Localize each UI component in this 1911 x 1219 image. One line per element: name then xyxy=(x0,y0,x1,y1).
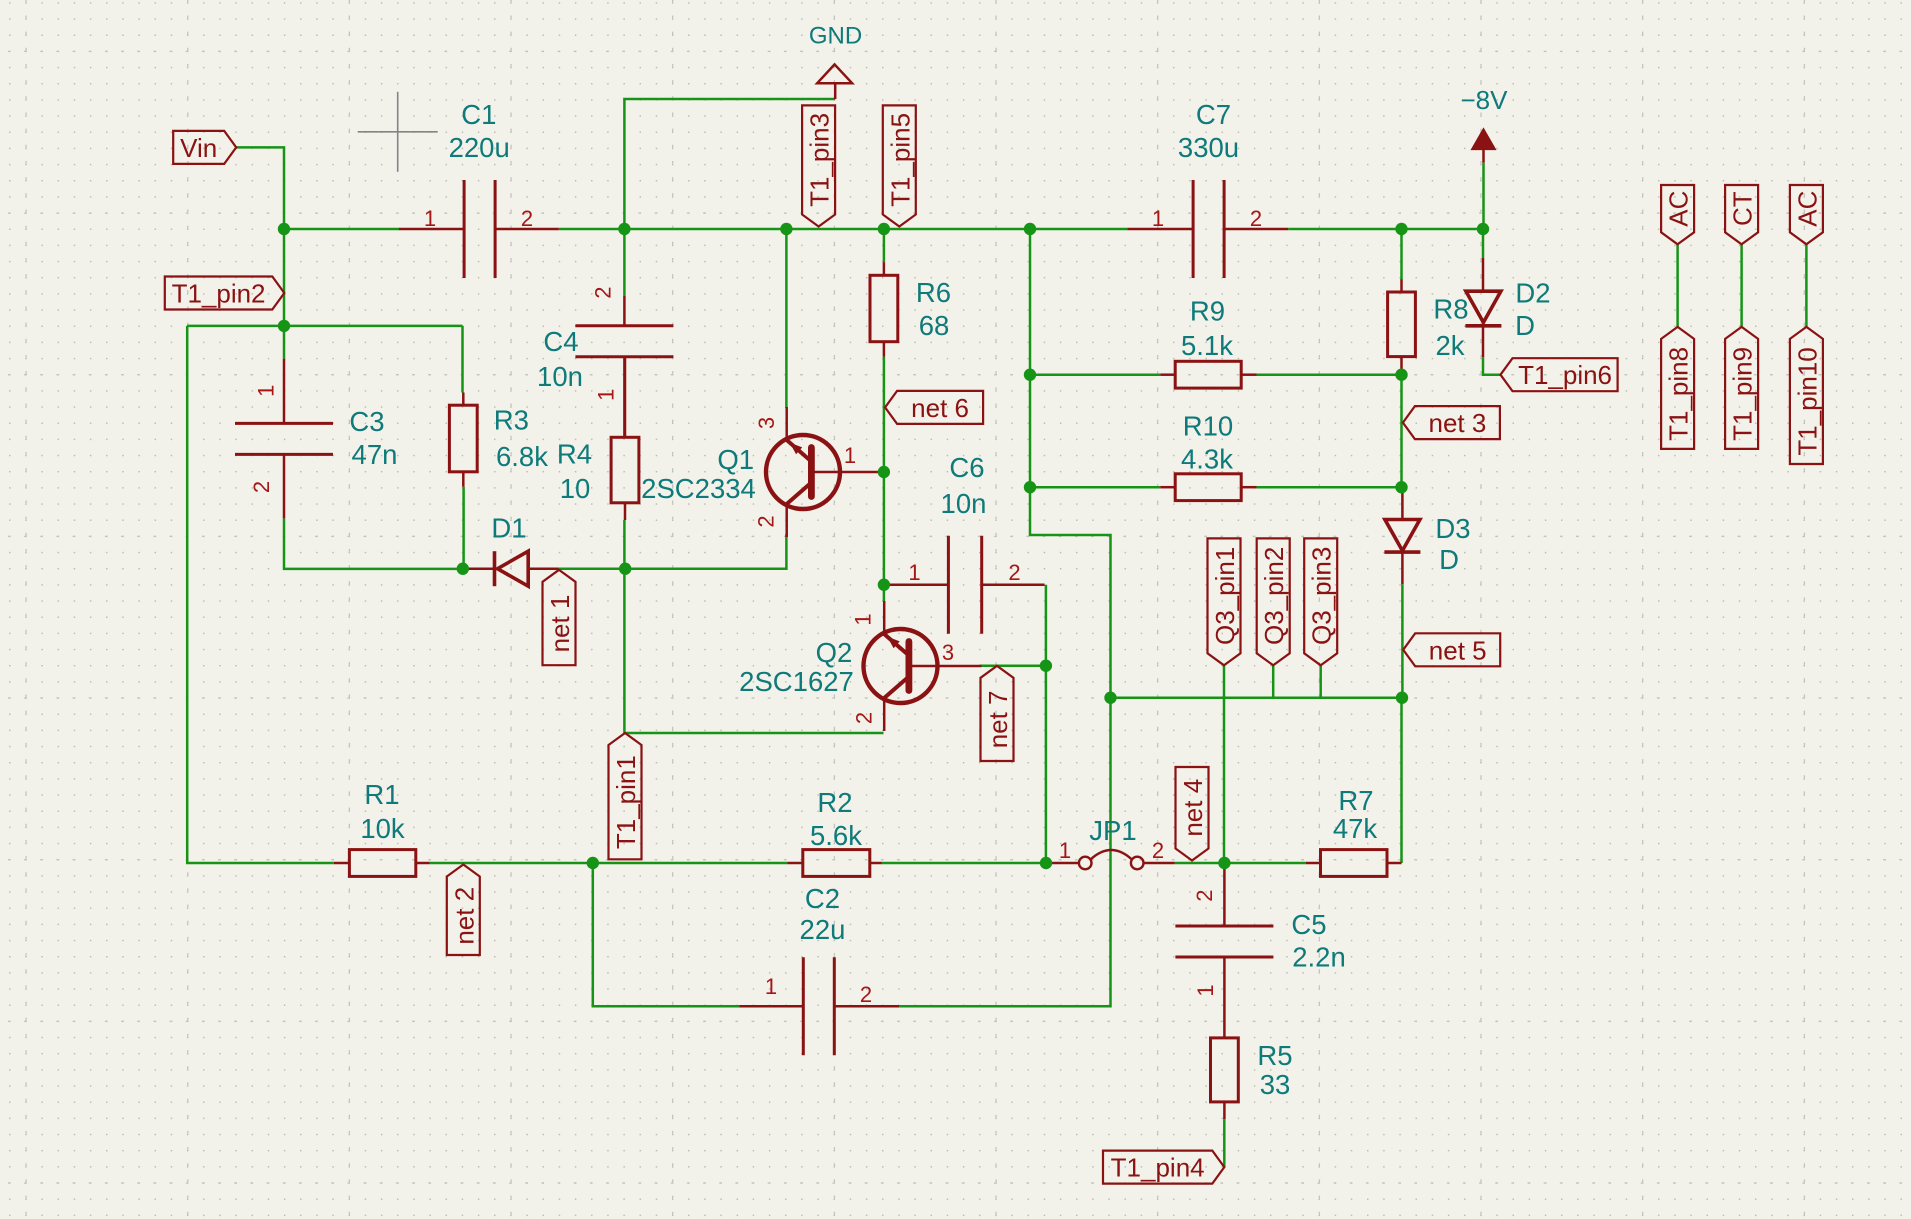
svg-text:D: D xyxy=(1439,544,1459,575)
hierarchical label T1_pin2 xyxy=(165,277,284,310)
capacitor C5 xyxy=(1175,866,1345,1038)
svg-text:T1_pin1: T1_pin1 xyxy=(611,755,641,849)
junction Q2 collector node xyxy=(1040,660,1052,672)
hierarchical label AC xyxy=(1661,185,1694,244)
svg-text:R5: R5 xyxy=(1257,1040,1292,1071)
svg-text:2: 2 xyxy=(249,481,274,493)
wire AC to T1_pin10 xyxy=(1805,244,1808,327)
junction row A / R6 column xyxy=(878,223,890,235)
junction R1 right node xyxy=(587,857,599,869)
svg-text:Q3_pin1: Q3_pin1 xyxy=(1210,547,1240,645)
hierarchical label T1_pin10 xyxy=(1790,327,1823,464)
svg-text:T1_pin9: T1_pin9 xyxy=(1728,347,1758,441)
capacitor C4 xyxy=(537,286,673,437)
capacitor C3 xyxy=(235,359,397,519)
svg-text:T1_pin5: T1_pin5 xyxy=(885,113,915,207)
power symbol GND xyxy=(809,23,862,100)
wire row A to Q1 collector xyxy=(785,229,788,408)
svg-text:1: 1 xyxy=(844,443,856,468)
wire node down to JP1 row xyxy=(1045,666,1048,863)
hierarchical label net 2 xyxy=(447,865,480,956)
wire D1 anode to node xyxy=(559,567,626,570)
hierarchical label net 3 xyxy=(1403,406,1500,439)
hierarchical label net 5 xyxy=(1403,633,1500,666)
svg-text:C6: C6 xyxy=(949,452,984,483)
wire JP1 to R7 xyxy=(1175,862,1306,865)
svg-text:33: 33 xyxy=(1260,1069,1291,1100)
hierarchical label Q3_pin1 xyxy=(1208,538,1241,665)
wire row A middle segment xyxy=(559,228,1128,231)
capacitor C1 xyxy=(399,99,559,278)
junction net 3 node xyxy=(1395,369,1407,381)
wire R2 to JP1 xyxy=(882,862,1046,865)
junction JP1 left node xyxy=(1040,857,1052,869)
svg-text:47k: 47k xyxy=(1333,813,1378,844)
svg-text:R3: R3 xyxy=(494,404,529,435)
svg-text:D2: D2 xyxy=(1515,278,1550,309)
wire Vin to C3 column xyxy=(236,147,284,358)
wire row A right segment xyxy=(1288,228,1483,231)
wire net row xyxy=(1111,696,1403,699)
wire down to R3 xyxy=(461,326,464,393)
svg-text:Q3_pin3: Q3_pin3 xyxy=(1307,547,1337,645)
junction C5 node xyxy=(1218,857,1230,869)
svg-text:330u: 330u xyxy=(1178,132,1239,163)
svg-text:T1_pin3: T1_pin3 xyxy=(805,113,835,207)
svg-text:Q2: Q2 xyxy=(816,637,853,668)
svg-text:1: 1 xyxy=(594,389,619,401)
wire Q3_pin2 down xyxy=(1272,665,1275,697)
resistor R4 xyxy=(557,357,639,520)
svg-text:T1_pin8: T1_pin8 xyxy=(1664,347,1694,441)
svg-text:2: 2 xyxy=(1192,889,1217,901)
svg-text:2k: 2k xyxy=(1435,330,1464,361)
resistor R10 xyxy=(1160,411,1256,501)
junction net 5 node xyxy=(1396,692,1408,704)
wire C3 pin2 to D1 row xyxy=(284,518,463,569)
junction row A / Vin column xyxy=(278,223,290,235)
wire to R10 pin1 xyxy=(1030,486,1160,489)
svg-text:JP1: JP1 xyxy=(1089,815,1136,846)
junction row A / R8 column xyxy=(1395,223,1407,235)
svg-text:D3: D3 xyxy=(1435,513,1470,544)
wire row A to R6 xyxy=(883,229,886,262)
junction row A / GND-C4 column xyxy=(618,223,630,235)
svg-text:C4: C4 xyxy=(543,326,578,357)
svg-text:2: 2 xyxy=(860,982,872,1007)
svg-text:R2: R2 xyxy=(817,787,852,818)
svg-text:C2: C2 xyxy=(805,883,840,914)
hierarchical label CT xyxy=(1725,185,1758,244)
hierarchical label T1_pin1 xyxy=(609,733,642,859)
resistor R1 xyxy=(334,779,430,876)
svg-text:C3: C3 xyxy=(349,406,384,437)
svg-text:net 6: net 6 xyxy=(911,393,969,423)
wire C2 pin2 up to net row xyxy=(899,698,1110,1007)
resistor R6 xyxy=(870,262,951,356)
wire R8 node to D3 xyxy=(1400,375,1403,490)
resistor R8 xyxy=(1388,279,1469,375)
wire D2 to T1_pin6 xyxy=(1483,357,1501,375)
junction row A / R9 column xyxy=(1024,223,1036,235)
wire R10 pin2 to D3 column xyxy=(1257,486,1402,489)
junction row A / Q1 collector xyxy=(780,223,792,235)
svg-text:net 1: net 1 xyxy=(545,595,575,653)
wire R5 to T1_pin4 xyxy=(1223,1119,1226,1167)
origin crosshair marker xyxy=(358,92,438,172)
svg-text:T1_pin4: T1_pin4 xyxy=(1111,1153,1205,1183)
resistor R9 xyxy=(1160,296,1256,388)
svg-text:net 5: net 5 xyxy=(1429,635,1487,665)
wire R3 bottom to D1 xyxy=(462,487,465,569)
wire -8V to row A xyxy=(1482,163,1485,229)
wire R9 pin2 to R8 column xyxy=(1257,373,1402,376)
junction C6 pin1 node xyxy=(878,579,890,591)
svg-text:3: 3 xyxy=(942,640,954,665)
svg-text:1: 1 xyxy=(765,974,777,999)
svg-text:net 7: net 7 xyxy=(983,690,1013,748)
transistor Q1 xyxy=(641,407,884,537)
junction Q1 base node xyxy=(878,466,890,478)
svg-text:CT: CT xyxy=(1728,191,1758,226)
svg-text:3: 3 xyxy=(754,417,779,429)
wire D3 to net row xyxy=(1401,584,1404,698)
svg-text:5.6k: 5.6k xyxy=(810,820,862,851)
svg-text:1: 1 xyxy=(424,206,436,231)
svg-text:68: 68 xyxy=(919,310,950,341)
wire Q2 collector to node xyxy=(980,665,1046,668)
svg-text:10n: 10n xyxy=(941,488,987,519)
hierarchical label Vin xyxy=(173,131,236,164)
hierarchical label net 6 xyxy=(885,391,983,424)
transistor Q2 xyxy=(739,601,981,731)
wire row A to R8 xyxy=(1400,229,1403,279)
wire AC to T1_pin8 xyxy=(1676,244,1679,327)
svg-text:T1_pin10: T1_pin10 xyxy=(1792,347,1822,455)
power symbol -8V xyxy=(1461,85,1509,163)
junction row A / -8V D2 column xyxy=(1477,223,1489,235)
svg-text:2: 2 xyxy=(1008,560,1020,585)
junction R10 right node xyxy=(1395,481,1407,493)
svg-text:T1_pin2: T1_pin2 xyxy=(172,279,266,309)
resistor R2 xyxy=(787,787,882,876)
wire row A left segment xyxy=(284,228,399,231)
svg-text:C5: C5 xyxy=(1291,909,1326,940)
svg-text:4.3k: 4.3k xyxy=(1181,444,1233,475)
wire to R9 pin1 xyxy=(1030,373,1160,376)
capacitor C6 xyxy=(885,452,1045,634)
svg-text:R9: R9 xyxy=(1190,296,1225,327)
svg-text:22u: 22u xyxy=(800,914,846,945)
svg-text:6.8k: 6.8k xyxy=(496,441,548,472)
svg-text:1: 1 xyxy=(253,385,278,397)
svg-text:net 4: net 4 xyxy=(1178,779,1208,837)
hierarchical label net 4 xyxy=(1176,767,1209,861)
svg-text:2: 2 xyxy=(521,206,533,231)
svg-text:10: 10 xyxy=(560,473,591,504)
svg-text:net 2: net 2 xyxy=(449,887,479,945)
wire R7 pin2 up xyxy=(1400,698,1403,863)
svg-text:−8V: −8V xyxy=(1461,85,1509,115)
diode D1 xyxy=(468,513,559,587)
svg-text:T1_pin6: T1_pin6 xyxy=(1518,360,1612,390)
svg-text:net 3: net 3 xyxy=(1428,408,1486,438)
junction T1_pin2 node xyxy=(278,320,290,332)
hierarchical label net 7 xyxy=(981,666,1014,761)
hierarchical label net 1 xyxy=(543,570,576,665)
wire Q3_pin1 down to C5 node xyxy=(1223,665,1226,863)
svg-text:R8: R8 xyxy=(1433,294,1468,325)
wire Q3_pin3 down xyxy=(1319,665,1322,697)
wire T1_pin2 row to R3 column xyxy=(187,325,462,328)
svg-text:GND: GND xyxy=(809,23,862,50)
svg-text:D: D xyxy=(1515,310,1535,341)
svg-text:10k: 10k xyxy=(360,813,405,844)
svg-text:2: 2 xyxy=(754,515,779,527)
svg-text:2: 2 xyxy=(852,712,877,724)
svg-text:R6: R6 xyxy=(916,277,951,308)
svg-text:R10: R10 xyxy=(1183,411,1233,442)
junction R9 left node xyxy=(1024,369,1036,381)
wire R4 bottom to Q2 emitter row xyxy=(624,520,883,733)
resistor R5 xyxy=(1211,1037,1293,1120)
wire node to Q1 emitter xyxy=(625,534,786,569)
svg-text:Q1: Q1 xyxy=(717,444,754,475)
hierarchical label T1_pin6 xyxy=(1501,358,1618,391)
svg-text:2SC1627: 2SC1627 xyxy=(739,666,854,697)
svg-text:Q3_pin2: Q3_pin2 xyxy=(1259,547,1289,645)
capacitor C7 xyxy=(1127,99,1288,278)
junction D1 cathode node xyxy=(457,563,469,575)
svg-text:5.1k: 5.1k xyxy=(1181,330,1233,361)
wire row A down past R9 R10 with jog xyxy=(1030,229,1111,698)
svg-text:220u: 220u xyxy=(449,132,510,163)
svg-text:2: 2 xyxy=(1250,206,1262,231)
wire left column to R1 xyxy=(187,326,334,863)
svg-text:1: 1 xyxy=(1059,838,1071,863)
wire row A to D2 xyxy=(1482,229,1485,258)
hierarchical label Q3_pin3 xyxy=(1304,538,1337,665)
svg-text:2: 2 xyxy=(1152,838,1164,863)
svg-text:1: 1 xyxy=(851,613,876,625)
hierarchical label T1_pin4 xyxy=(1103,1151,1224,1184)
svg-text:Vin: Vin xyxy=(180,133,217,163)
wire CT to T1_pin9 xyxy=(1740,244,1743,327)
svg-text:C1: C1 xyxy=(461,99,496,130)
svg-text:C7: C7 xyxy=(1196,99,1231,130)
svg-text:1: 1 xyxy=(908,560,920,585)
svg-text:AC: AC xyxy=(1664,191,1694,227)
svg-text:R7: R7 xyxy=(1338,785,1373,816)
svg-text:2SC2334: 2SC2334 xyxy=(641,473,756,504)
hierarchical label AC right xyxy=(1790,185,1823,244)
wire GND to C4 xyxy=(624,99,835,296)
wire R1 to R2 xyxy=(430,862,788,865)
junction D1 anode node xyxy=(619,563,631,575)
junction net row left node xyxy=(1104,692,1116,704)
diode D3 xyxy=(1384,490,1470,584)
hierarchical label Q3_pin2 xyxy=(1257,538,1290,665)
hierarchical label T1_pin3 xyxy=(802,105,835,226)
svg-text:1: 1 xyxy=(1152,206,1164,231)
svg-text:R4: R4 xyxy=(557,439,592,470)
svg-text:2: 2 xyxy=(591,286,616,298)
svg-text:10n: 10n xyxy=(537,361,583,392)
svg-text:AC: AC xyxy=(1792,191,1822,227)
wire C6 pin2 down xyxy=(1045,585,1048,666)
hierarchical label T1_pin5 xyxy=(883,105,916,226)
diode D2 xyxy=(1465,258,1550,357)
wire down to C2 pin1 xyxy=(593,863,739,1006)
svg-text:1: 1 xyxy=(1193,984,1218,996)
capacitor C2 xyxy=(739,883,899,1055)
svg-text:47n: 47n xyxy=(352,439,398,470)
jumper JP1 xyxy=(1046,815,1175,869)
junction R10 left node xyxy=(1024,481,1036,493)
svg-text:D1: D1 xyxy=(491,513,526,544)
hierarchical label T1_pin9 xyxy=(1725,327,1758,449)
resistor R7 xyxy=(1306,785,1402,876)
wire R6 bottom to Q2 base column xyxy=(883,357,886,602)
svg-text:R1: R1 xyxy=(364,779,399,810)
svg-text:2.2n: 2.2n xyxy=(1292,942,1346,973)
hierarchical label T1_pin8 xyxy=(1661,327,1694,449)
resistor R3 xyxy=(449,393,548,487)
